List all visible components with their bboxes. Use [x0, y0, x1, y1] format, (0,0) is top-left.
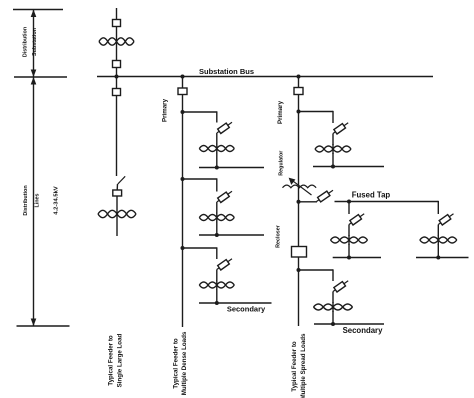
voltage regulator (right feeder) [283, 178, 317, 195]
wire (transformer to secondary, right feeder tap below recloser) [332, 311, 334, 324]
distribution transformer (right feeder tap below recloser) [314, 302, 353, 312]
wire (left feeder, incoming above breaker) [116, 8, 118, 20]
svg-text:Recloser: Recloser [276, 224, 282, 248]
node (junction, middle feeder tap 2) [181, 177, 185, 181]
wire (lateral tap, middle feeder tap 2) [183, 178, 217, 191]
svg-text:Multiple Spread Loads: Multiple Spread Loads [300, 333, 307, 398]
wire (transformer to secondary, fused tap drop 1) [348, 244, 350, 258]
fuse cutout (fused tap drop 1) [349, 214, 364, 225]
wire (fuse to transformer, right feeder tap 1) [332, 134, 334, 146]
label: Substation Bus [199, 67, 254, 76]
wire (right feeder, bus to recloser) [298, 77, 300, 247]
distribution transformer (single large load) [98, 210, 136, 219]
label: Typical Feeder to Multiple Spread Loads [291, 333, 307, 398]
dimension arrow shaft (distribution lines span) [33, 77, 35, 326]
wire (fuse to transformer, middle feeder tap 1) [216, 133, 218, 145]
wire (lateral tap, right feeder tap below recloser) [299, 269, 334, 281]
breaker (left feeder, below switch) [113, 190, 122, 196]
secondary line (right feeder tap 1) [313, 166, 384, 168]
node (secondary junction, middle feeder tap 1) [215, 166, 219, 170]
node (right feeder / bus junction) [297, 75, 301, 79]
distribution transformer (right feeder tap 1) [315, 144, 351, 154]
node (secondary junction, right feeder tap below recloser) [331, 322, 335, 326]
label: Primary (middle feeder) [162, 98, 169, 122]
recloser (right feeder) [292, 247, 307, 258]
wire (right feeder, recloser to end) [298, 257, 300, 326]
svg-text:Single Large Load: Single Large Load [117, 333, 124, 387]
breaker (left feeder, top) [113, 20, 121, 27]
secondary line (fused tap drop 2) [416, 257, 469, 259]
fuse cutout (middle feeder tap 1) [217, 122, 232, 133]
label: Typical Feeder to Single Large Load [108, 333, 124, 387]
label: Primary (right feeder) [277, 100, 284, 124]
substation transformer (left feeder) [99, 37, 134, 46]
dimension arrowhead down at middle tick [31, 70, 37, 78]
secondary line (right feeder tap below recloser) [314, 323, 384, 325]
svg-text:Secondary: Secondary [343, 326, 384, 335]
node (middle feeder / bus junction) [181, 75, 185, 79]
fuse cutout (middle feeder tap 3) [217, 259, 232, 270]
node (fused tap drop 1 junction) [347, 200, 351, 204]
fuse cutout (right feeder tap below recloser) [333, 281, 348, 292]
wire (left feeder, below load transformer) [116, 219, 118, 236]
breaker (middle feeder, below bus) [178, 88, 187, 95]
node (junction, middle feeder tap 3) [181, 246, 185, 250]
svg-text:Fused Tap: Fused Tap [352, 191, 391, 200]
wire (transformer to secondary, middle feeder tap 2) [216, 222, 218, 236]
wire (fuse to transformer, fused tap drop 2) [437, 225, 439, 237]
svg-text:Secondary: Secondary [227, 305, 266, 314]
wire (fused tap drop 1) [348, 202, 350, 215]
node (secondary junction, fused tap drop 1) [347, 256, 351, 260]
wire (lateral tap, middle feeder tap 3) [183, 247, 217, 259]
breaker (right feeder, below bus) [294, 88, 303, 95]
node (secondary junction, fused tap drop 2) [436, 256, 440, 260]
disconnect switch (left feeder) [117, 176, 125, 190]
dimension arrowhead up at middle tick [31, 77, 37, 85]
fused tap line [335, 201, 439, 203]
wire (transformer to secondary, right feeder tap 1) [332, 153, 334, 167]
svg-text:Lines: Lines [35, 193, 41, 207]
node (junction, right feeder tap 1) [297, 110, 301, 114]
node (secondary junction, middle feeder tap 3) [215, 301, 219, 305]
distribution transformer (middle feeder tap 2) [199, 213, 234, 223]
label: Typical Feeder to Multiple Dense Loads [172, 331, 188, 395]
breaker (left feeder, above bus) [113, 61, 121, 68]
distribution transformer (fused tap drop 2) [420, 235, 457, 245]
node (junction, middle feeder tap 1) [181, 110, 185, 114]
dimension tick line (bottom, distribution lines lower bound) [17, 325, 70, 327]
svg-text:Substation Bus: Substation Bus [199, 67, 254, 76]
secondary line (fused tap drop 1) [333, 257, 381, 259]
wire (left feeder, breaker to load transformer) [116, 196, 118, 210]
label: Secondary (right feeder) [343, 326, 384, 335]
wire (left feeder, transformer to breaker) [116, 46, 118, 61]
node (fused tap junction) [297, 200, 301, 204]
dimension arrow shaft (distribution substation span) [33, 10, 35, 78]
svg-text:Distribution: Distribution [23, 27, 29, 57]
fuse cutout (fused tap drop 2) [438, 214, 453, 225]
wire (middle feeder main) [182, 77, 184, 328]
svg-text:Typical Feeder to: Typical Feeder to [108, 335, 115, 386]
secondary line (middle feeder tap 2) [199, 234, 264, 236]
fuse cutout (right feeder tap 1) [333, 123, 348, 134]
wire (fused tap drop 2) [437, 201, 439, 214]
node (left feeder / bus junction) [115, 75, 119, 79]
svg-text:Typical Feeder to: Typical Feeder to [172, 338, 179, 389]
wire (fuse to transformer, middle feeder tap 2) [216, 202, 218, 214]
dimension tick line (middle, substation/lines boundary) [14, 76, 67, 78]
dimension arrowhead up at top tick [31, 10, 37, 18]
node (junction, right feeder tap below recloser) [297, 268, 301, 272]
wire (lateral tap, right feeder tap 1) [299, 111, 334, 123]
wire (left feeder, bus to breaker) [116, 77, 118, 89]
wire (fuse to transformer, fused tap drop 1) [348, 225, 350, 237]
svg-text:Multiple Dense Loads: Multiple Dense Loads [181, 331, 188, 395]
dimension tick line (top, distribution substation upper bound) [13, 9, 63, 11]
label: Recloser [276, 224, 282, 248]
wire (fuse to transformer, middle feeder tap 3) [216, 270, 218, 282]
breaker (left feeder, below bus) [113, 89, 121, 96]
svg-text:Primary: Primary [277, 100, 284, 124]
label: 4.2-34.5kV [53, 186, 59, 214]
label: Fused Tap [352, 191, 391, 200]
svg-text:Primary: Primary [162, 98, 169, 122]
label: Regulator [279, 150, 285, 176]
distribution transformer (middle feeder tap 1) [199, 144, 234, 154]
distribution transformer (middle feeder tap 3) [199, 280, 234, 290]
fuse cutout (middle feeder tap 2) [217, 191, 232, 202]
wire (fused tap, feeder to fuse) [299, 201, 318, 203]
wire (transformer to secondary, middle feeder tap 1) [216, 153, 218, 168]
node (secondary junction, right feeder tap 1) [331, 165, 335, 169]
secondary line (middle feeder tap 3) [199, 302, 272, 304]
distribution transformer (fused tap drop 1) [331, 235, 368, 245]
wire (transformer to secondary, middle feeder tap 3) [216, 289, 218, 303]
node (secondary junction, middle feeder tap 2) [215, 233, 219, 237]
wire (fuse to transformer, right feeder tap below recloser) [332, 292, 334, 304]
dimension arrowhead down at bottom tick [31, 319, 37, 327]
svg-text:4.2-34.5kV: 4.2-34.5kV [53, 186, 59, 214]
wire (transformer to secondary, fused tap drop 2) [437, 244, 439, 258]
svg-text:Typical Feeder to: Typical Feeder to [291, 341, 298, 392]
svg-text:Distribution: Distribution [23, 185, 29, 215]
svg-text:Substation: Substation [32, 28, 38, 56]
wire (left feeder, breaker to substation transformer) [116, 27, 118, 38]
wire (left feeder, breaker to bus) [116, 68, 118, 77]
substation bus [97, 76, 433, 78]
label: Distribution Lines [23, 185, 40, 215]
label: Distribution Substation [23, 27, 38, 57]
secondary line (middle feeder tap 1) [199, 167, 264, 169]
fuse cutout (fused tap) [317, 190, 334, 202]
wire (left feeder, breaker to disconnect switch) [116, 96, 118, 177]
label: Secondary (middle feeder) [227, 305, 266, 314]
wire (lateral tap, middle feeder tap 1) [183, 111, 217, 122]
svg-text:Regulator: Regulator [279, 150, 285, 176]
